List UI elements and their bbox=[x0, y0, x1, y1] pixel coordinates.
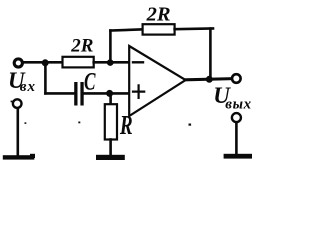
wire feedback top right bbox=[175, 27, 213, 30]
wire input terminal to resistor 2R bbox=[23, 61, 62, 64]
svg-text:2R: 2R bbox=[146, 3, 171, 25]
output terminal Uвых bbox=[232, 74, 241, 83]
op-amp inverting input pin (-) bbox=[133, 61, 143, 63]
svg-text:C: C bbox=[84, 67, 96, 95]
wire capacitor to op-amp non-inverting input bbox=[84, 92, 129, 95]
wire resistor R bottom lead bbox=[109, 140, 112, 156]
node junction output/feedback bbox=[206, 76, 213, 83]
wire resistor R top lead bbox=[109, 93, 112, 104]
wire lower-right terminal to ground bbox=[235, 123, 238, 154]
net label Uвх bbox=[8, 68, 36, 95]
input terminal Uвх bbox=[14, 59, 22, 67]
node junction input/capacitor branch bbox=[42, 59, 49, 66]
svg-text:вх: вх bbox=[20, 79, 36, 95]
ground (below resistor R) bbox=[96, 155, 125, 160]
wire to capacitor C left plate bbox=[45, 92, 74, 95]
value label 2R (feedback resistor) bbox=[146, 3, 171, 25]
resistor 2R (input) bbox=[63, 57, 94, 68]
speck bbox=[78, 122, 80, 124]
value label R bbox=[119, 111, 133, 141]
wire feedback top left bbox=[110, 29, 142, 30]
wire op-amp output bbox=[186, 79, 232, 80]
input return terminal (lower left) bbox=[13, 99, 22, 108]
value label C bbox=[84, 67, 96, 95]
wire feedback left vertical bbox=[109, 31, 112, 63]
op-amp U1 bbox=[129, 46, 185, 116]
op-amp non-inverting input pin (+) bbox=[133, 85, 144, 98]
value label 2R (input resistor) bbox=[70, 36, 93, 57]
resistor R bbox=[105, 104, 117, 139]
node junction non-inverting input/resistor R bbox=[106, 90, 113, 97]
wire resistor 2R to op-amp inverting input bbox=[94, 61, 129, 64]
net label Uвых bbox=[213, 83, 252, 113]
speck bbox=[189, 124, 192, 126]
wire capacitor branch vertical drop bbox=[44, 62, 47, 93]
output return terminal (lower right) bbox=[232, 113, 241, 122]
svg-text:вых: вых bbox=[225, 97, 251, 113]
ground (lower left) bbox=[3, 154, 35, 160]
wire lower-left terminal to ground bbox=[16, 108, 19, 155]
wire feedback right vertical bbox=[209, 29, 212, 80]
speck bbox=[25, 122, 27, 124]
svg-text:2R: 2R bbox=[70, 36, 93, 57]
node junction feedback/inverting input bbox=[107, 59, 114, 66]
resistor 2R (feedback) bbox=[143, 24, 175, 34]
capacitor C bbox=[74, 82, 84, 106]
ground (lower right) bbox=[224, 154, 252, 159]
speck bbox=[11, 101, 13, 103]
